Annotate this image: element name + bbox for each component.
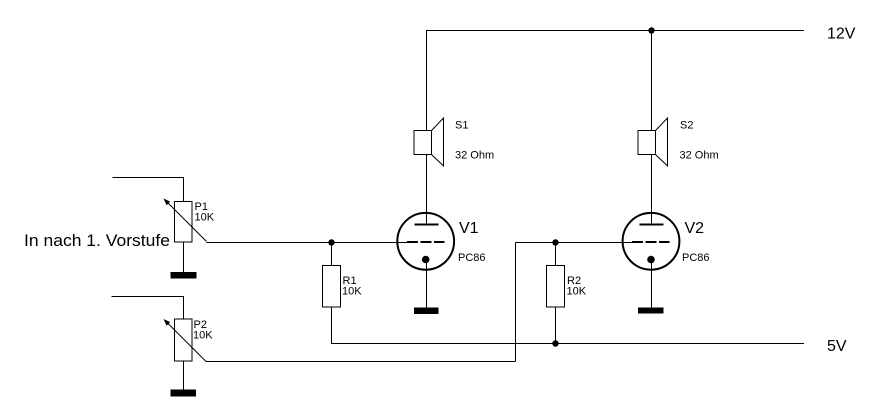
svg-text:32 Ohm: 32 Ohm — [680, 150, 719, 162]
node junction R2 top / V2 grid — [552, 239, 558, 245]
wire V1 cathode to ground — [426, 260, 428, 308]
svg-text:PC86: PC86 — [682, 252, 710, 264]
svg-text:10K: 10K — [195, 212, 215, 224]
wire P2 bottom to ground — [183, 361, 185, 390]
potentiometer P1 — [164, 199, 207, 243]
wire R1 bottom lead to 5V rail — [330, 307, 333, 344]
node junction R2 bottom / 5V rail — [552, 340, 558, 346]
ground P2 — [171, 390, 197, 397]
tube V1 — [397, 212, 454, 271]
svg-text:10K: 10K — [342, 286, 362, 298]
potentiometer P2 — [164, 319, 207, 362]
svg-text:10K: 10K — [567, 286, 587, 298]
node junction top rail at V2 — [648, 27, 654, 33]
tube V2 — [623, 212, 680, 271]
wire P2 wiper run — [206, 361, 516, 363]
wire R1 top lead — [331, 243, 333, 267]
ground V1 cathode — [414, 308, 439, 315]
resistor R2 — [547, 266, 565, 308]
wire R2 top lead — [555, 243, 557, 267]
svg-text:S1: S1 — [455, 120, 468, 132]
wire P2 input top — [112, 297, 184, 320]
ground V2 cathode — [638, 308, 664, 314]
wire V1 plate branch (rail to speaker S1) — [426, 31, 428, 132]
svg-text:S2: S2 — [680, 120, 693, 132]
wire P1 input top — [113, 178, 184, 202]
node junction R1 top / V1 grid — [328, 239, 334, 245]
wire P1 wiper to V1 grid — [207, 242, 400, 244]
svg-text:V2: V2 — [685, 220, 705, 237]
svg-text:In nach 1. Vorstufe: In nach 1. Vorstufe — [24, 232, 170, 250]
svg-text:32 Ohm: 32 Ohm — [455, 150, 494, 162]
svg-text:12V: 12V — [827, 26, 856, 43]
speaker S2 — [638, 118, 668, 166]
wire R2 bottom lead — [555, 307, 557, 344]
ground P1 — [171, 272, 197, 279]
wire V2 plate branch (rail to speaker S2) — [651, 31, 653, 132]
svg-text:V1: V1 — [459, 220, 479, 237]
wire mid vertical riser — [515, 243, 517, 362]
svg-text:5V: 5V — [827, 338, 847, 355]
wire 12V top rail — [426, 30, 804, 32]
svg-text:10K: 10K — [193, 330, 213, 342]
resistor R1 — [323, 266, 341, 308]
speaker S1 — [414, 118, 444, 166]
svg-text:PC86: PC86 — [458, 252, 486, 264]
wire S1 to V1 top — [426, 155, 428, 227]
wire V2 cathode to ground — [651, 260, 653, 308]
wire 5V rail — [331, 343, 804, 345]
wire riser to V2 grid — [516, 242, 625, 244]
wire P1 bottom to ground — [183, 242, 185, 273]
wire S2 to V2 top — [651, 155, 653, 227]
